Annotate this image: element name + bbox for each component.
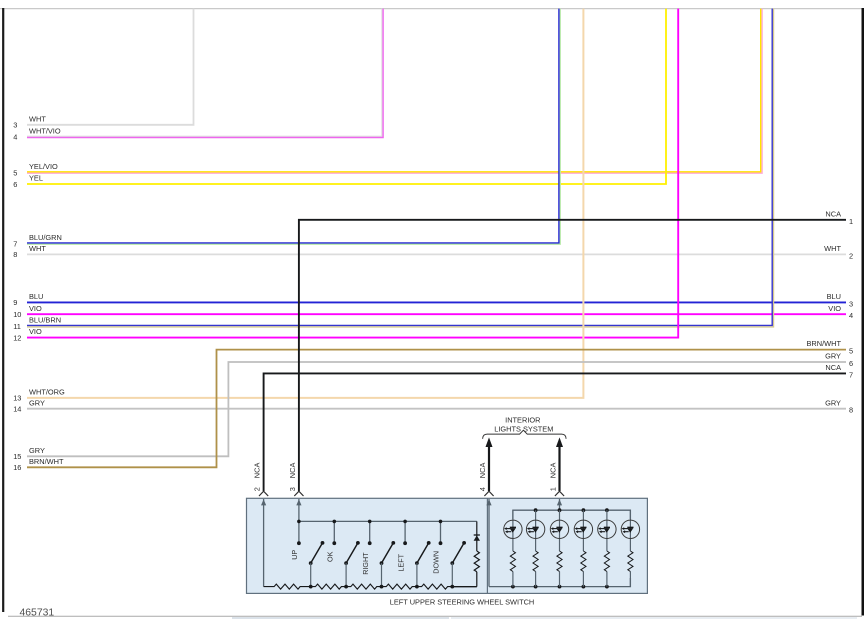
svg-text:BLU: BLU <box>29 292 43 301</box>
wire BLU pin9 to right pin3 <box>27 301 846 303</box>
wire VIO pin10 to right pin4 <box>27 313 846 315</box>
wire YEL/VIO pin5, right then up at x=761 <box>27 9 762 174</box>
bottom window line <box>8 615 862 617</box>
wire VIO pin12, right then up at x=678 <box>27 9 678 338</box>
svg-text:16: 16 <box>13 463 21 472</box>
svg-text:1: 1 <box>549 487 558 491</box>
wire BLU/BRN pin11, right then up at x=772 <box>27 9 774 327</box>
LED section bottom bus <box>489 578 630 587</box>
svg-text:11: 11 <box>13 322 21 331</box>
svg-text:OK: OK <box>326 551 335 562</box>
svg-text:VIO: VIO <box>29 304 42 313</box>
svg-text:4: 4 <box>478 487 487 491</box>
divider between switch and LED sections <box>486 498 488 593</box>
svg-text:WHT/VIO: WHT/VIO <box>29 127 61 136</box>
svg-text:YEL/VIO: YEL/VIO <box>29 162 58 171</box>
left connector pin labels <box>13 114 65 472</box>
left frame border <box>2 8 4 612</box>
svg-text:BLU/GRN: BLU/GRN <box>29 233 62 242</box>
entry arrows inside box <box>263 499 265 587</box>
connector chevron and NCA label, switch pin 2 <box>259 491 268 496</box>
svg-text:4: 4 <box>849 311 853 320</box>
svg-text:LIGHTS SYSTEM: LIGHTS SYSTEM <box>494 425 553 434</box>
svg-text:YEL: YEL <box>29 174 43 183</box>
connector chevron and NCA label, switch pin 1 <box>555 491 564 496</box>
top frame line <box>0 8 864 10</box>
LED D1 resistor <box>510 551 515 572</box>
svg-text:NCA: NCA <box>288 463 297 479</box>
svg-text:VIO: VIO <box>828 304 841 313</box>
svg-text:7: 7 <box>13 239 17 248</box>
switch OK fixed contact stub <box>333 521 335 543</box>
LED D4 <box>582 510 584 551</box>
wire WHT pin3, runs right then up to top <box>27 9 194 125</box>
svg-text:1: 1 <box>849 217 853 226</box>
wire WHT/VIO pin4, right then up to top <box>27 9 382 137</box>
svg-text:WHT: WHT <box>29 244 46 253</box>
bold arrow to interior lights, switch pin 1 <box>558 447 560 491</box>
svg-text:BLU/BRN: BLU/BRN <box>29 316 61 325</box>
LED section top bus <box>513 510 631 519</box>
svg-text:WHT: WHT <box>824 244 841 253</box>
svg-text:GRY: GRY <box>825 352 841 361</box>
svg-text:RIGHT: RIGHT <box>361 552 370 575</box>
wire NCA right pin7, left then down to switch pin2 <box>264 373 846 491</box>
svg-text:NCA: NCA <box>253 463 262 479</box>
wire BRN/WHT pin16, up at x=216 then right to pin5 <box>27 350 846 468</box>
svg-text:GRY: GRY <box>29 398 45 407</box>
diode and resistor branch <box>476 521 478 551</box>
svg-text:NCA: NCA <box>549 463 558 479</box>
switch UP fixed contact stub <box>298 521 300 543</box>
switch RIGHT lever <box>382 543 394 563</box>
switch LEFT lever <box>417 543 429 563</box>
svg-text:UP: UP <box>290 550 299 560</box>
LED D6 <box>629 510 631 551</box>
svg-text:14: 14 <box>13 405 21 414</box>
bold arrow to interior lights, switch pin 4 <box>488 447 490 491</box>
svg-text:2: 2 <box>253 487 262 491</box>
LED D6 resistor <box>628 551 633 572</box>
LED D2 <box>535 510 537 551</box>
switch LEFT lever to bottom bus <box>416 563 418 587</box>
svg-text:BRN/WHT: BRN/WHT <box>807 339 842 348</box>
switch OK lever <box>346 543 358 563</box>
svg-text:NCA: NCA <box>825 209 841 218</box>
wire WHT/ORG pin13, right then up at x=583 <box>27 9 583 398</box>
svg-text:WHT: WHT <box>29 114 46 123</box>
svg-text:5: 5 <box>13 168 17 177</box>
bottom strip segments <box>232 617 449 620</box>
switch RIGHT lever to bottom bus <box>381 563 383 587</box>
LED D3 resistor <box>557 551 562 572</box>
LED D3 <box>559 510 561 551</box>
wire GRY pin15, up at x=228 then right to pin6 <box>27 362 846 456</box>
svg-text:9: 9 <box>13 298 17 307</box>
svg-text:7: 7 <box>849 370 853 379</box>
svg-text:5: 5 <box>849 347 853 356</box>
INTERIOR LIGHTS SYSTEM label <box>494 416 553 434</box>
switch UP lever <box>311 543 323 563</box>
svg-text:WHT/ORG: WHT/ORG <box>29 388 65 397</box>
svg-text:6: 6 <box>13 180 17 189</box>
switch OK lever to bottom bus <box>345 563 347 587</box>
switch UP lever to bottom bus <box>310 563 312 587</box>
svg-text:NCA: NCA <box>478 463 487 479</box>
svg-text:8: 8 <box>849 406 853 415</box>
svg-text:10: 10 <box>13 310 21 319</box>
svg-text:DOWN: DOWN <box>432 551 441 574</box>
switch DOWN lever to bottom bus <box>451 563 453 587</box>
LED D5 resistor <box>604 551 609 572</box>
svg-text:LEFT: LEFT <box>396 553 405 571</box>
svg-text:BRN/WHT: BRN/WHT <box>29 457 64 466</box>
right connector pin labels <box>807 209 854 414</box>
LED D2 resistor <box>533 551 538 572</box>
svg-text:8: 8 <box>13 250 17 259</box>
svg-text:6: 6 <box>849 359 853 368</box>
connector chevron and NCA label, switch pin 3 <box>294 491 303 496</box>
svg-text:GRY: GRY <box>825 398 841 407</box>
switch DOWN lever <box>452 543 464 563</box>
svg-text:13: 13 <box>13 394 21 403</box>
LED D1 <box>512 510 514 551</box>
bottom bus with series resistors <box>264 584 311 589</box>
svg-text:12: 12 <box>13 333 21 342</box>
svg-text:3: 3 <box>13 121 17 130</box>
svg-text:3: 3 <box>288 487 297 491</box>
svg-text:LEFT UPPER STEERING WHEEL SWIT: LEFT UPPER STEERING WHEEL SWITCH <box>390 597 535 606</box>
switch RIGHT fixed contact stub <box>369 521 371 543</box>
svg-text:BLU: BLU <box>827 292 841 301</box>
right frame border <box>861 8 864 616</box>
svg-text:NCA: NCA <box>825 363 841 372</box>
connector chevron and NCA label, switch pin 4 <box>484 491 493 496</box>
switch LEFT fixed contact stub <box>404 521 406 543</box>
LED D4 resistor <box>581 551 586 572</box>
switch assembly box <box>247 498 648 593</box>
svg-text:2: 2 <box>849 251 853 260</box>
switch DOWN fixed contact stub <box>440 521 442 543</box>
svg-text:VIO: VIO <box>29 327 42 336</box>
svg-text:15: 15 <box>13 452 21 461</box>
LED D5 <box>606 510 608 551</box>
switch top bus <box>299 520 477 522</box>
svg-text:GRY: GRY <box>29 446 45 455</box>
svg-text:INTERIOR: INTERIOR <box>505 416 540 425</box>
svg-text:4: 4 <box>13 133 17 142</box>
wire WHT pin8 to right pin2 <box>27 253 846 255</box>
wire GRY pin14 to right pin8 <box>27 408 846 410</box>
brace over interior lights arrows <box>483 430 566 439</box>
wire YEL pin6, right then up at x=666 <box>27 9 666 184</box>
wire BLU/GRN pin7, right then up at x=559 <box>27 9 560 245</box>
wire NCA right pin1, left then down to switch pin3 <box>299 220 846 491</box>
svg-text:3: 3 <box>849 299 853 308</box>
